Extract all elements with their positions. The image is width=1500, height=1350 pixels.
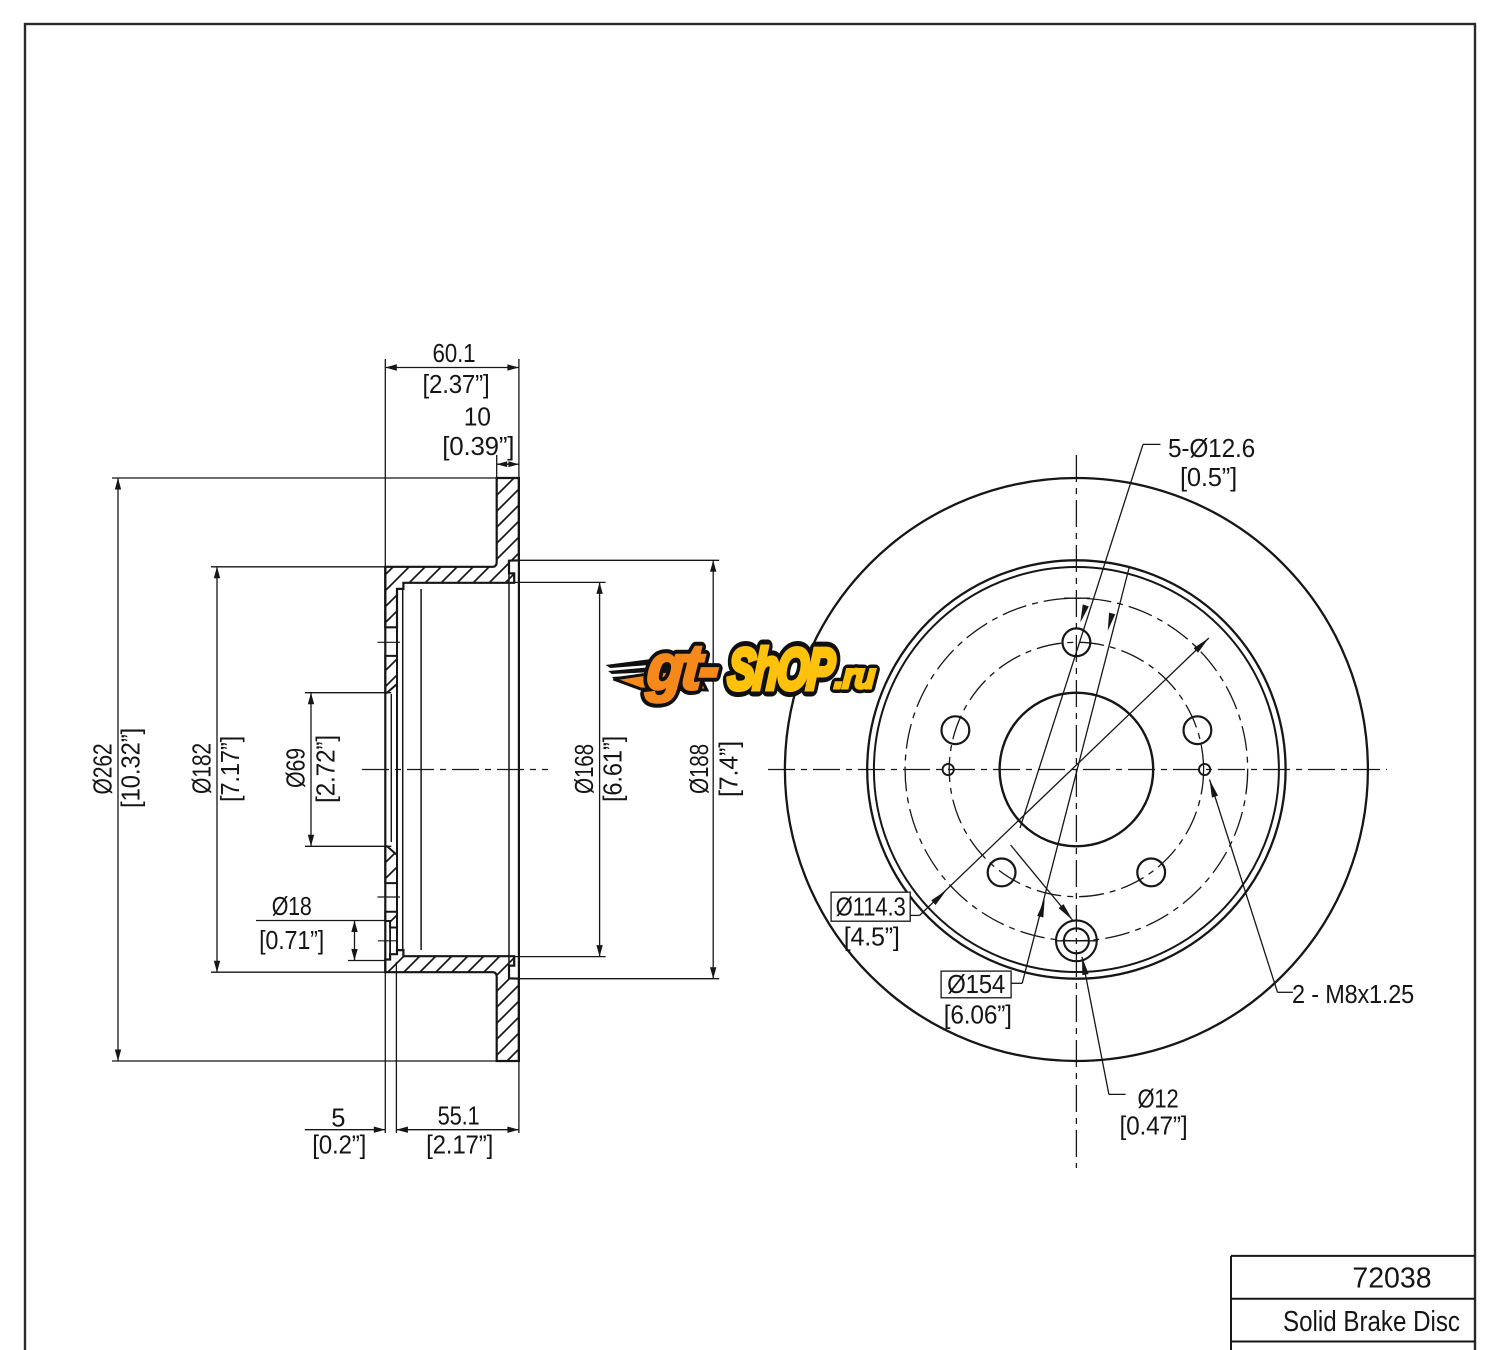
- svg-text:Ø168: Ø168: [571, 744, 599, 794]
- section axis centre line: [362, 769, 548, 771]
- svg-text:Ø182: Ø182: [189, 743, 217, 794]
- leader line 2-M8 label: [1210, 780, 1278, 993]
- dimension line 5 wall: [305, 1129, 386, 1131]
- svg-text:Ø262: Ø262: [90, 744, 118, 795]
- svg-text:[4.5”]: [4.5”]: [844, 924, 900, 952]
- circle diameter 154 dash-dot: [905, 598, 1248, 941]
- logo text gt-: [644, 632, 721, 704]
- svg-text:60.1: 60.1: [433, 340, 476, 368]
- logo orange swoosh: [613, 667, 709, 690]
- svg-text:10: 10: [464, 404, 491, 432]
- svg-text:[0.71”]: [0.71”]: [259, 927, 324, 955]
- hub inner face edge line A: [402, 589, 404, 950]
- cross tick at top of diameter154 circle: [1064, 597, 1090, 599]
- extension line band outboard face up: [518, 359, 520, 478]
- arrowheads on long label-to-box leader: [1105, 613, 1116, 632]
- centre bore upper edge: [305, 692, 391, 694]
- arrowheads diameter 188: [710, 560, 716, 572]
- hat wall inner face silhouette line: [396, 589, 398, 950]
- friction band outboard face edge line: [518, 478, 520, 1061]
- M8 service hole spotface diameter 18: [1056, 920, 1097, 961]
- svg-text:Ø114.3: Ø114.3: [836, 894, 906, 922]
- extension line hat drum top: [211, 566, 385, 568]
- svg-text:[2.17”]: [2.17”]: [426, 1132, 493, 1160]
- extension line drum bore top: [514, 581, 605, 583]
- arrowhead into M8 hole: [1059, 904, 1075, 922]
- arrowheads diameter 69: [308, 693, 314, 705]
- upper bolt hole centre tick: [378, 641, 401, 643]
- wall segment between centre bore and lower bolt hole: [385, 846, 397, 883]
- bolt circle diameter 114.3 dash-dot: [949, 642, 1203, 896]
- long leader line from label to diameter154 box: [1022, 567, 1129, 983]
- svg-text:Ø69: Ø69: [283, 748, 311, 788]
- bolt hole top 90deg: [1063, 628, 1091, 656]
- svg-text:5-Ø12.6: 5-Ø12.6: [1168, 435, 1255, 463]
- extension line M8 spotface bottom: [348, 960, 385, 962]
- dimension line diameter 18 spotface: [354, 921, 356, 961]
- svg-text:[10.32”]: [10.32”]: [118, 728, 146, 808]
- arrowhead 5: [374, 1127, 386, 1133]
- leader line diameter 12 label: [1082, 957, 1109, 1095]
- tick joining diameter154 box: [1011, 982, 1022, 984]
- dimension line 60.1 width: [385, 367, 519, 369]
- bolt hole 306deg: [1137, 859, 1165, 887]
- lower bolt hole centre tick: [378, 896, 401, 898]
- logo speed line 3: [612, 673, 676, 679]
- svg-text:.ru: .ru: [833, 657, 876, 696]
- horizontal centre line front view: [768, 769, 1387, 771]
- extension line wall inner face down: [395, 962, 397, 1133]
- leader line from 5-diameter12.6 label to top bolt hole: [1020, 444, 1143, 828]
- centre bore circle diameter 69: [1000, 693, 1154, 847]
- svg-text:[7.17”]: [7.17”]: [217, 736, 245, 802]
- wall segment between lower bolt hole and M8 spotface: [385, 912, 397, 928]
- logo speed line 2: [608, 665, 676, 674]
- wall segment between upper bolt hole and centre bore: [385, 656, 397, 693]
- dimension line diameter 182: [216, 567, 218, 972]
- section material lower half (mirror, with M8 spotface) hatched: [385, 950, 519, 1061]
- hat left face silhouette line: [384, 567, 386, 972]
- M8 spotface floor silhouette line: [389, 921, 391, 960]
- vertical centre line front view: [1075, 455, 1077, 1168]
- arrowheads diameter 168: [596, 582, 602, 594]
- bolt hole 234deg: [988, 859, 1016, 887]
- extension line hat left face up: [384, 359, 386, 567]
- svg-text:Solid Brake Disc: Solid Brake Disc: [1283, 1306, 1460, 1338]
- M8 service hole diameter 12: [1064, 928, 1089, 953]
- hub inner face edge line B: [420, 589, 422, 950]
- small hole right: [1199, 764, 1210, 775]
- leader line under diameter 18 label: [256, 920, 385, 922]
- centre bore far-side surface line: [390, 694, 392, 842]
- extension line band outboard face down: [518, 1061, 520, 1133]
- svg-text:ShOP: ShOP: [726, 637, 837, 702]
- gt-shop.ru logo: [603, 632, 879, 704]
- logo text .ru: [833, 657, 876, 696]
- arrowhead 2-M8 leader: [1206, 779, 1218, 798]
- svg-text:Ø154: Ø154: [947, 971, 1005, 999]
- extension line friction inner top: [519, 559, 719, 561]
- dimension line diameter 168: [599, 582, 601, 956]
- arrowheads on diameter114.3 line: [931, 888, 948, 905]
- boxed label diameter 114.3: [831, 892, 910, 921]
- arrowheads diameter 182: [214, 567, 220, 579]
- cross tick at M8 hole centre: [1056, 940, 1096, 942]
- svg-text:[2.72”]: [2.72”]: [313, 735, 341, 803]
- svg-text:[0.39”]: [0.39”]: [442, 433, 514, 461]
- tick joining diameter114.3 box: [910, 914, 919, 916]
- leader tick diameter 12 label: [1109, 1093, 1126, 1095]
- extension line friction inner bottom: [519, 978, 719, 980]
- lower M8 hole centre tick: [378, 940, 396, 942]
- svg-text:[6.06”]: [6.06”]: [944, 1002, 1012, 1030]
- dimension line 55.1 depth: [396, 1129, 519, 1131]
- arrowheads 60.1: [385, 364, 397, 370]
- svg-text:Ø188: Ø188: [686, 744, 714, 794]
- svg-text:Ø12: Ø12: [1138, 1086, 1179, 1114]
- extension line disc OD top: [112, 477, 497, 479]
- svg-text:[0.2”]: [0.2”]: [312, 1132, 366, 1160]
- circle diameter 182 hat drum: [874, 567, 1279, 972]
- extension line hat drum bottom: [211, 971, 385, 973]
- logo speed line 1: [605, 656, 675, 668]
- svg-text:[7.4”]: [7.4”]: [716, 741, 744, 797]
- outer circle diameter 262: [785, 478, 1368, 1061]
- centre bore lower edge: [305, 845, 391, 847]
- dimension line diameter 188: [712, 560, 714, 978]
- svg-text:72038: 72038: [1352, 1263, 1431, 1295]
- small hole left: [943, 764, 954, 775]
- svg-text:5: 5: [331, 1104, 345, 1132]
- bolt hole 162deg: [942, 716, 970, 744]
- cross-section view of brake disc: [305, 478, 548, 1061]
- diameter 114.3 diameter line through centre: [920, 638, 1209, 915]
- title block: [1231, 1256, 1475, 1350]
- circle diameter 188 friction surface inner edge: [867, 560, 1285, 978]
- front view of brake disc: [785, 478, 1368, 1061]
- extension line drum bore bottom: [514, 956, 605, 958]
- section material upper half (hat wall, drum, friction band) hatched: [385, 478, 519, 627]
- leader tick 5-diameter12.6 label: [1143, 443, 1161, 445]
- arrowheads diameter 262: [115, 478, 121, 490]
- svg-text:gt-: gt-: [644, 632, 721, 704]
- svg-text:[6.61”]: [6.61”]: [600, 736, 628, 802]
- arrowheads 55.1: [396, 1127, 408, 1133]
- boxed label diameter 154: [941, 971, 1011, 999]
- extension line disc OD bottom: [112, 1060, 497, 1062]
- logo text ShOP: [726, 637, 837, 702]
- groove inner corner edge seen through hat opening: [508, 573, 510, 965]
- arrowheads 10: [497, 461, 508, 467]
- extension line hat left face down: [384, 972, 386, 1133]
- short leader into M8 hole from upper left: [1011, 845, 1073, 920]
- bolt hole 18deg: [1184, 716, 1212, 744]
- dimension line diameter 69: [310, 693, 312, 847]
- svg-text:Ø18: Ø18: [272, 893, 312, 921]
- svg-text:2 - M8x1.25: 2 - M8x1.25: [1292, 981, 1414, 1009]
- extension line band inboard face up: [496, 455, 498, 478]
- arrowhead at top bolt hole: [1077, 604, 1089, 623]
- svg-text:[2.37”]: [2.37”]: [423, 371, 490, 399]
- leader tick 2-M8 label: [1278, 991, 1293, 993]
- svg-text:55.1: 55.1: [438, 1103, 480, 1131]
- svg-text:[0.47”]: [0.47”]: [1120, 1113, 1188, 1141]
- dimension line 10 thickness: [497, 463, 519, 465]
- dimension line diameter 262: [117, 478, 119, 1061]
- arrowheads diameter 18: [351, 921, 357, 933]
- svg-text:[0.5”]: [0.5”]: [1180, 464, 1237, 492]
- arrowhead diameter12 leader: [1079, 956, 1089, 975]
